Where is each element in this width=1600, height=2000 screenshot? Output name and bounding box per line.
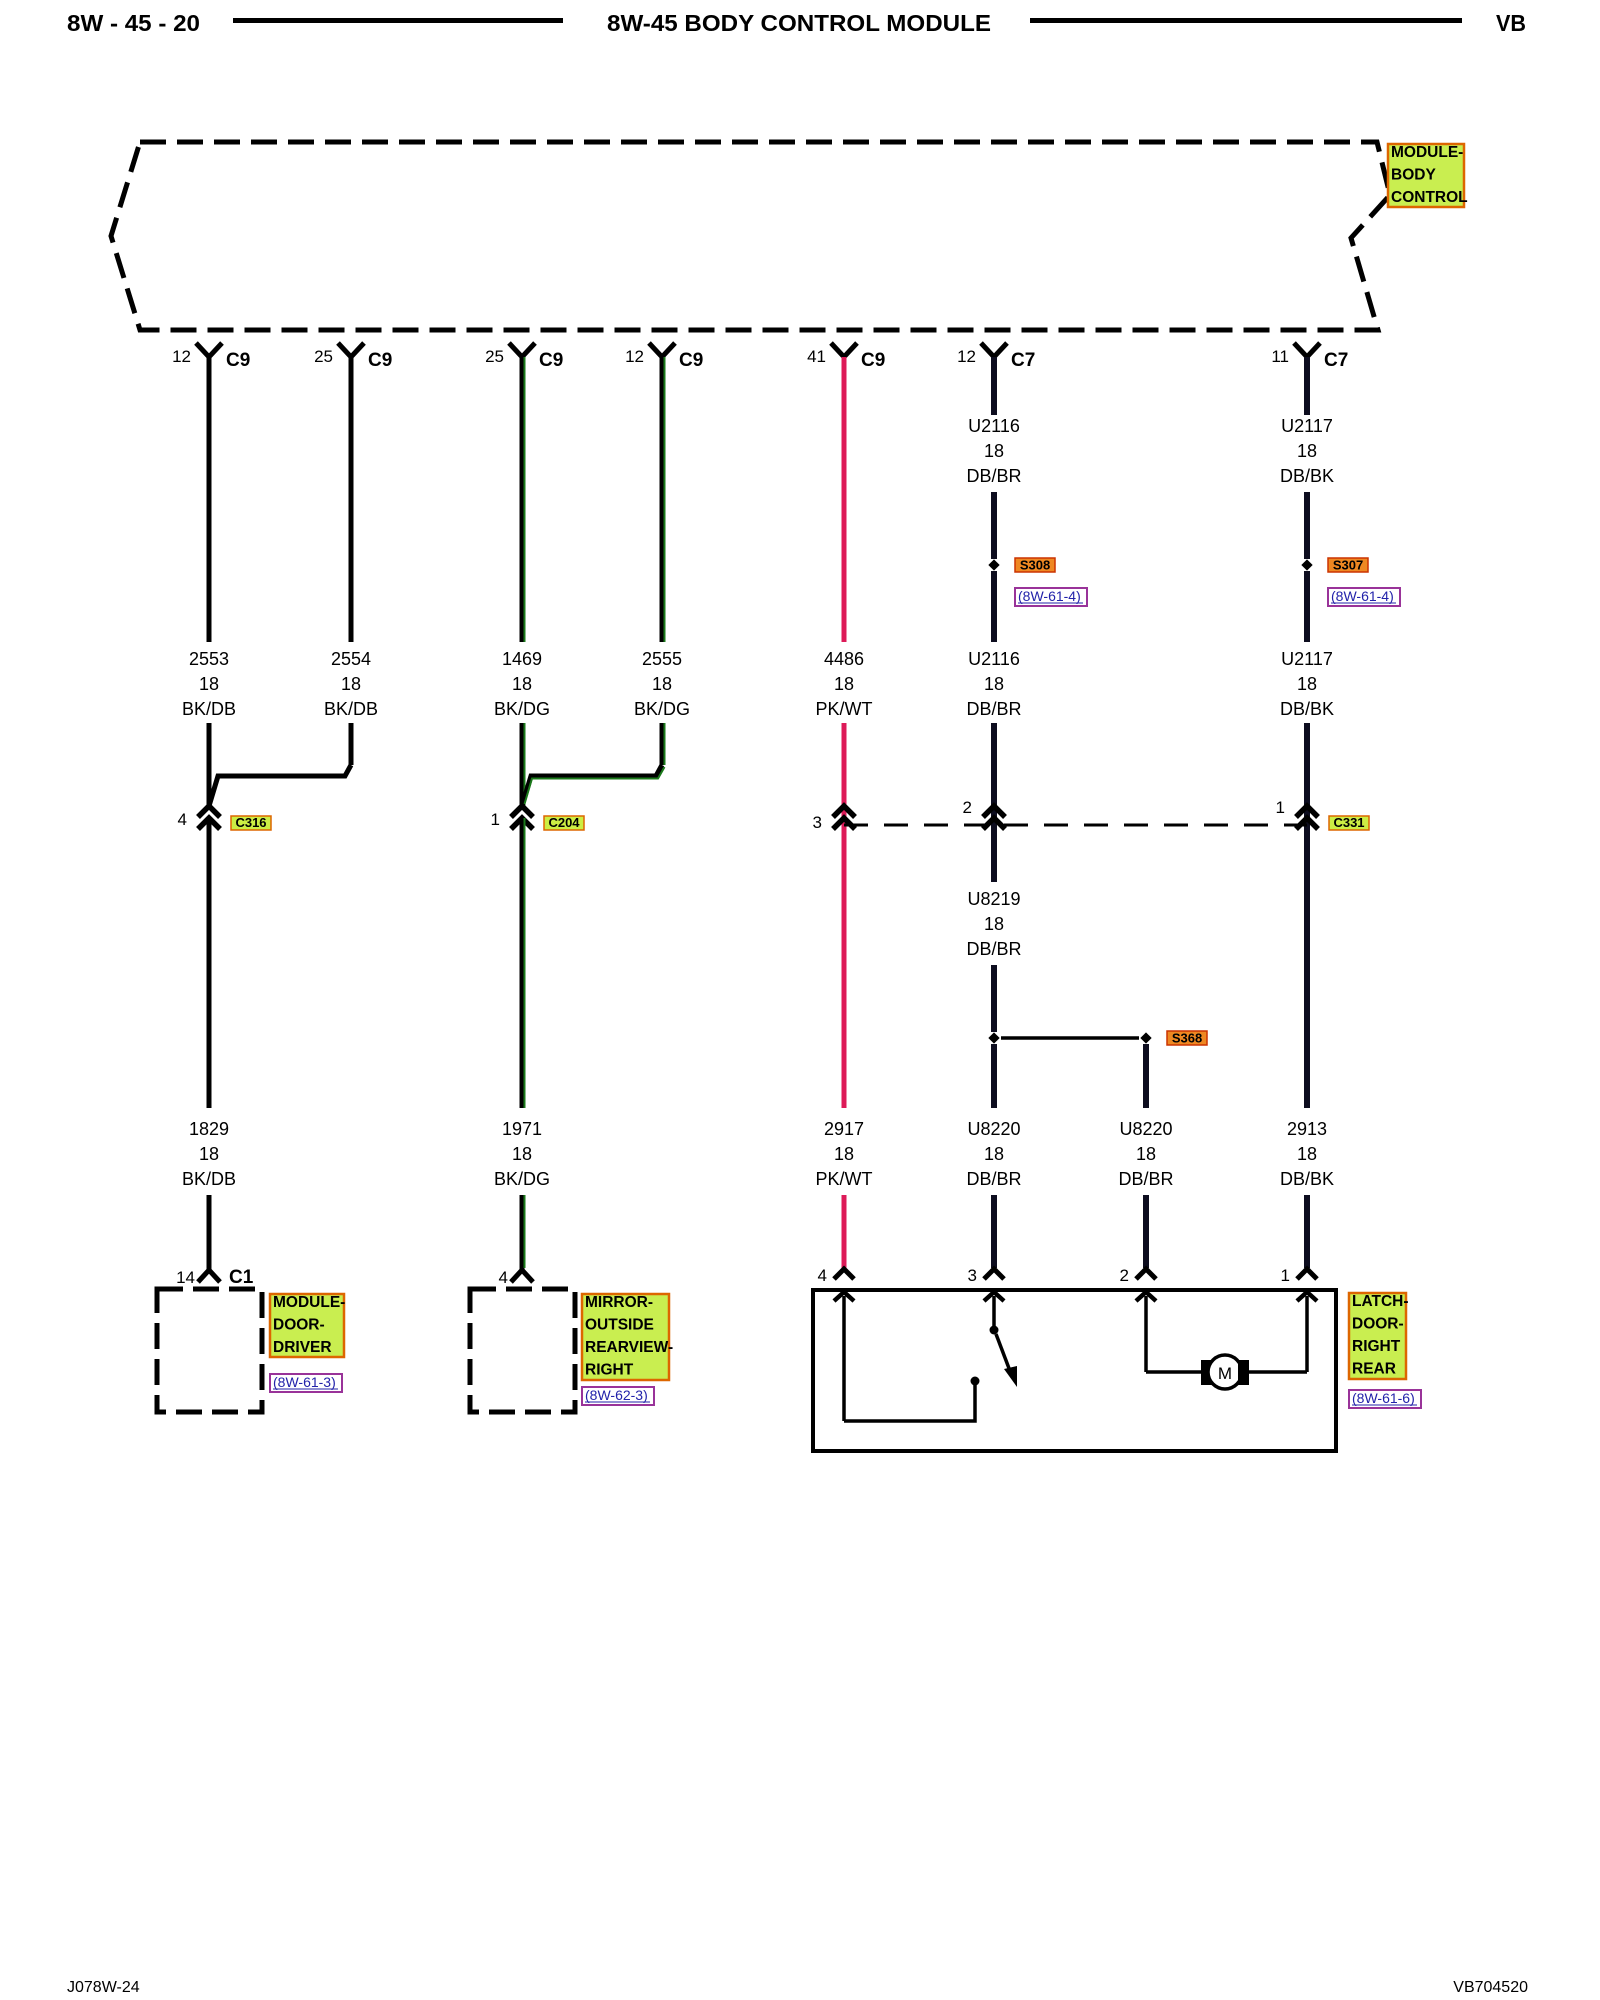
svg-text:C204: C204: [548, 815, 580, 830]
svg-text:(8W-61-4): (8W-61-4): [1018, 588, 1081, 604]
svg-text:J078W-24: J078W-24: [67, 1979, 140, 1996]
svg-text:C9: C9: [679, 350, 703, 371]
svg-text:DB/BR: DB/BR: [966, 466, 1021, 486]
svg-text:DB/BK: DB/BK: [1280, 1169, 1334, 1189]
svg-text:2: 2: [1120, 1266, 1129, 1285]
svg-text:2554: 2554: [331, 649, 371, 669]
svg-text:BK/DB: BK/DB: [324, 699, 378, 719]
svg-text:4: 4: [178, 810, 187, 829]
svg-text:C7: C7: [1324, 350, 1348, 371]
svg-text:18: 18: [341, 674, 361, 694]
svg-text:4486: 4486: [824, 649, 864, 669]
svg-text:RIGHT: RIGHT: [585, 1362, 634, 1379]
svg-text:U2116: U2116: [968, 416, 1020, 436]
svg-text:U8220: U8220: [1119, 1119, 1172, 1139]
svg-text:18: 18: [984, 674, 1004, 694]
svg-text:3: 3: [968, 1266, 977, 1285]
svg-text:C1: C1: [229, 1267, 254, 1288]
svg-text:MODULE-: MODULE-: [273, 1294, 345, 1311]
svg-text:U2117: U2117: [1281, 649, 1333, 669]
svg-text:14: 14: [176, 1268, 195, 1287]
svg-text:41: 41: [807, 347, 826, 366]
svg-text:U2116: U2116: [968, 649, 1020, 669]
svg-text:11: 11: [1271, 347, 1289, 366]
svg-text:U8219: U8219: [967, 889, 1020, 909]
svg-text:18: 18: [984, 1144, 1004, 1164]
svg-text:S308: S308: [1020, 558, 1050, 573]
svg-text:(8W-61-6): (8W-61-6): [1352, 1390, 1415, 1406]
svg-text:MODULE-: MODULE-: [1391, 144, 1463, 161]
svg-text:REARVIEW-: REARVIEW-: [585, 1339, 673, 1356]
svg-text:12: 12: [625, 347, 644, 366]
svg-text:18: 18: [984, 441, 1004, 461]
svg-text:1: 1: [491, 810, 500, 829]
svg-text:18: 18: [199, 1144, 219, 1164]
svg-text:1469: 1469: [502, 649, 542, 669]
svg-text:DB/BK: DB/BK: [1280, 699, 1334, 719]
svg-text:2917: 2917: [824, 1119, 864, 1139]
svg-text:18: 18: [1297, 441, 1317, 461]
svg-text:DOOR-: DOOR-: [273, 1317, 325, 1334]
svg-text:C9: C9: [539, 350, 563, 371]
svg-text:REAR: REAR: [1352, 1361, 1396, 1378]
svg-text:C9: C9: [861, 350, 885, 371]
svg-text:25: 25: [485, 347, 504, 366]
svg-text:PK/WT: PK/WT: [816, 699, 873, 719]
svg-text:18: 18: [199, 674, 219, 694]
svg-text:VB: VB: [1496, 10, 1526, 36]
svg-text:U8220: U8220: [967, 1119, 1020, 1139]
svg-text:18: 18: [1297, 1144, 1317, 1164]
svg-text:U2117: U2117: [1281, 416, 1333, 436]
svg-text:2: 2: [963, 798, 972, 817]
svg-text:1971: 1971: [502, 1119, 542, 1139]
svg-text:BK/DG: BK/DG: [634, 699, 690, 719]
svg-text:18: 18: [1297, 674, 1317, 694]
svg-text:OUTSIDE: OUTSIDE: [585, 1317, 654, 1334]
svg-text:BK/DB: BK/DB: [182, 1169, 236, 1189]
svg-text:8W - 45 - 20: 8W - 45 - 20: [67, 10, 200, 36]
svg-text:BODY: BODY: [1391, 167, 1436, 184]
svg-text:BK/DG: BK/DG: [494, 699, 550, 719]
svg-text:18: 18: [512, 674, 532, 694]
svg-text:18: 18: [984, 914, 1004, 934]
svg-text:DB/BR: DB/BR: [966, 1169, 1021, 1189]
svg-text:12: 12: [957, 347, 976, 366]
svg-text:1: 1: [1276, 798, 1285, 817]
svg-text:DRIVER: DRIVER: [273, 1339, 332, 1356]
svg-text:DB/BR: DB/BR: [1118, 1169, 1173, 1189]
svg-text:(8W-61-3): (8W-61-3): [273, 1374, 336, 1390]
svg-text:RIGHT: RIGHT: [1352, 1338, 1401, 1355]
svg-text:DOOR-: DOOR-: [1352, 1316, 1404, 1333]
svg-text:DB/BK: DB/BK: [1280, 466, 1334, 486]
svg-text:DB/BR: DB/BR: [966, 699, 1021, 719]
svg-text:25: 25: [314, 347, 333, 366]
svg-text:1: 1: [1281, 1266, 1290, 1285]
svg-text:C9: C9: [368, 350, 392, 371]
svg-text:DB/BR: DB/BR: [966, 939, 1021, 959]
svg-text:BK/DG: BK/DG: [494, 1169, 550, 1189]
svg-text:C9: C9: [226, 350, 250, 371]
svg-text:(8W-62-3): (8W-62-3): [585, 1387, 648, 1403]
svg-text:12: 12: [172, 347, 191, 366]
svg-text:2553: 2553: [189, 649, 229, 669]
svg-text:(8W-61-4): (8W-61-4): [1331, 588, 1394, 604]
svg-text:18: 18: [512, 1144, 532, 1164]
svg-text:2913: 2913: [1287, 1119, 1327, 1139]
svg-text:C316: C316: [235, 815, 266, 830]
svg-text:C331: C331: [1333, 815, 1364, 830]
svg-text:S368: S368: [1172, 1031, 1202, 1046]
svg-text:MIRROR-: MIRROR-: [585, 1294, 653, 1311]
svg-text:2555: 2555: [642, 649, 682, 669]
svg-text:VB704520: VB704520: [1453, 1979, 1528, 1996]
svg-text:LATCH-: LATCH-: [1352, 1293, 1409, 1310]
svg-text:8W-45 BODY CONTROL MODULE: 8W-45 BODY CONTROL MODULE: [607, 10, 991, 36]
svg-text:CONTROL: CONTROL: [1391, 189, 1468, 206]
svg-text:4: 4: [499, 1268, 508, 1287]
svg-text:S307: S307: [1333, 558, 1363, 573]
svg-text:C7: C7: [1011, 350, 1035, 371]
svg-text:18: 18: [834, 1144, 854, 1164]
svg-text:18: 18: [1136, 1144, 1156, 1164]
svg-text:BK/DB: BK/DB: [182, 699, 236, 719]
svg-text:1829: 1829: [189, 1119, 229, 1139]
svg-text:4: 4: [818, 1266, 827, 1285]
svg-text:18: 18: [652, 674, 672, 694]
svg-text:PK/WT: PK/WT: [816, 1169, 873, 1189]
svg-text:3: 3: [813, 813, 822, 832]
svg-text:M: M: [1218, 1364, 1232, 1383]
svg-text:18: 18: [834, 674, 854, 694]
